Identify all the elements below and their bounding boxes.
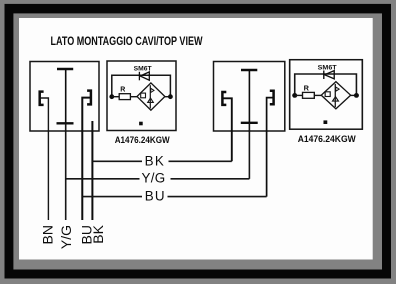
svg-text:LATO MONTAGGIO CAVI/TOP VIEW: LATO MONTAGGIO CAVI/TOP VIEW (51, 36, 203, 48)
pin P1 center terminal of J1 (57, 69, 74, 123)
svg-text:BU: BU (145, 188, 166, 203)
wire from T3 down to BK bus (223, 98, 232, 161)
mounting pad (139, 122, 143, 126)
diode D1 (139, 72, 149, 81)
connector J1 outline (30, 62, 99, 132)
terminal T1 left bracket of J1 (40, 92, 44, 105)
bus wire Y/G (66, 178, 250, 180)
wire from T4 down to BU bus (267, 98, 273, 197)
pin P2 center terminal of J2 (241, 70, 258, 123)
connector J2 outline (214, 62, 285, 132)
flasher module U2 (copy of U1) (290, 60, 363, 144)
bridge internal diode top (151, 88, 154, 92)
wire from J1 center pin down (Y/G wire) (65, 123, 67, 220)
bus wire BK (92, 160, 231, 162)
node right (168, 94, 173, 99)
svg-text:BN: BN (39, 225, 55, 244)
wire bridge to right node (165, 96, 171, 98)
terminal T2 right bracket of J1 (87, 91, 91, 105)
wire resistor to bridge (130, 96, 137, 98)
terminal T4 right bracket of J2 (270, 91, 274, 105)
node left (109, 94, 114, 99)
svg-text:BK: BK (145, 153, 166, 168)
wire 4 (BK wire) (91, 121, 93, 220)
svg-text:Y/G: Y/G (142, 171, 166, 186)
svg-text:Y/G: Y/G (58, 225, 74, 249)
module box (107, 61, 176, 131)
bridge rectifier diamond (137, 83, 165, 110)
svg-text:A1476.24KGW: A1476.24KGW (115, 135, 171, 145)
terminal T3 left bracket of J2 (222, 92, 226, 105)
flasher module U1 (107, 61, 176, 145)
wire from J2 center pin down to Y/G bus (248, 123, 250, 179)
bridge internal diode up (148, 98, 154, 102)
wire from T1 to BN (41, 98, 49, 220)
svg-text:R: R (120, 87, 125, 94)
resistor R (119, 94, 130, 100)
top wire with node verticals (112, 75, 171, 96)
bus wire BU (82, 196, 266, 198)
svg-text:BK: BK (90, 224, 106, 243)
wire node to resistor (112, 96, 119, 98)
bridge internal element box (141, 93, 146, 98)
wire from T2 down (BU wire) (82, 98, 90, 220)
bridge internal center wire (149, 85, 151, 108)
